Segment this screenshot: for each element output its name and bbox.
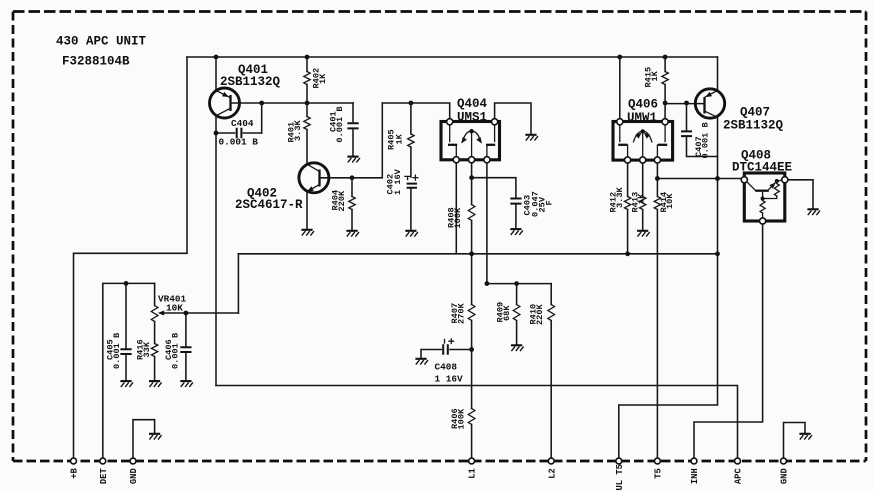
wire pin3 node wire <box>487 283 551 285</box>
resistor R405 <box>408 103 414 177</box>
ground GND left pin ground <box>149 434 162 440</box>
capacitor C404 <box>216 103 262 138</box>
capacitor C407 <box>681 103 718 157</box>
wire Q406 pin5 riser to +B rail <box>619 57 621 119</box>
svg-text:F3288104B: F3288104B <box>62 55 130 69</box>
svg-text:APC: APC <box>734 468 744 485</box>
connector pin +B <box>71 458 77 464</box>
wire GND right pin to ground <box>784 423 806 458</box>
svg-text:0.001 B: 0.001 B <box>700 122 710 158</box>
connector pin T5 <box>654 458 660 464</box>
transistor Q401 2SB1132Q <box>210 57 240 118</box>
svg-text:2SB1132Q: 2SB1132Q <box>220 75 281 89</box>
capacitor C401 <box>347 103 358 155</box>
junction base wire / R401 R402 <box>305 101 310 106</box>
junction DET wire / C405 <box>124 281 129 286</box>
resistor R407 <box>468 254 475 350</box>
junction bus / R412 <box>625 251 630 256</box>
transistor Q402 2SC4617-R <box>299 163 329 194</box>
svg-text:0.001 B: 0.001 B <box>335 106 345 142</box>
svg-text:100K: 100K <box>453 207 463 228</box>
svg-text:100K: 100K <box>456 408 466 429</box>
svg-text:C404: C404 <box>231 118 254 129</box>
capacitor C405 <box>120 283 131 379</box>
wire Q401 base wire <box>232 102 353 104</box>
svg-text:430 APC UNIT: 430 APC UNIT <box>56 35 147 49</box>
capacitor C408 (electrolytic) <box>421 339 472 358</box>
ground C408 ground <box>415 359 428 365</box>
resistor R401 <box>304 103 310 164</box>
svg-text:+B: +B <box>70 468 80 479</box>
resistor R414 <box>654 163 660 458</box>
svg-text:3.3K: 3.3K <box>293 120 303 141</box>
wire APC row wire <box>216 386 738 458</box>
wire bus end to UL T5 <box>619 254 718 458</box>
junction Q407 collector / Q408 input <box>715 176 720 181</box>
junction top rail / R415 <box>663 55 668 60</box>
svg-text:270K: 270K <box>456 303 466 324</box>
svg-text:68K: 68K <box>502 305 512 321</box>
svg-text:L2: L2 <box>547 468 557 479</box>
wire Q402 base wire <box>321 103 382 178</box>
svg-text:33K: 33K <box>142 341 152 357</box>
ground C406 ground <box>180 381 193 387</box>
junction bus / Q407 collector line <box>715 251 720 256</box>
svg-text:Q406: Q406 <box>628 98 658 112</box>
wire Q408 emitter to INH <box>694 224 763 458</box>
dual transistor Q406 UMW1 <box>613 119 673 163</box>
ground R409 ground <box>511 345 524 351</box>
svg-text:L1: L1 <box>468 468 478 479</box>
svg-text:DTC144EE: DTC144EE <box>732 161 792 175</box>
svg-text:GND: GND <box>129 468 139 484</box>
wire Q401 collector down to APC row <box>215 116 217 386</box>
resistor R402 <box>304 57 310 103</box>
svg-text:220K: 220K <box>535 304 545 325</box>
wire Q408 input wire <box>657 178 741 180</box>
resistor R412 <box>624 163 630 254</box>
junction R415 / Q406 pin6 / Q407 base <box>663 101 668 106</box>
transistor Q407 2SB1132Q <box>665 57 725 118</box>
ground C401 ground <box>347 157 360 163</box>
svg-text:10K: 10K <box>166 303 183 314</box>
wire node wire to Q404 pin4 <box>382 103 449 119</box>
wire Q404 pin2 lead <box>471 163 473 178</box>
junction top rail / Q406 pin5 <box>617 55 622 60</box>
wire wiper bus riser <box>237 254 239 313</box>
resistor R409 <box>513 284 520 344</box>
resistor R415 <box>662 57 668 103</box>
connector pin APC <box>735 458 741 464</box>
junction base wire / C404 riser <box>259 101 264 106</box>
wire +B top rail <box>187 56 718 58</box>
capacitor C406 <box>180 313 191 380</box>
junction Q404 pin2 / C403 tap <box>469 175 474 180</box>
wire Q408 collector wire to ground <box>788 180 813 208</box>
ground R416 ground <box>149 381 162 387</box>
svg-text:1K: 1K <box>650 70 660 81</box>
connector pin L2 <box>548 458 554 464</box>
junction R407 / C408 / R406 node <box>469 347 474 352</box>
junction pin3 riser corner <box>485 281 490 286</box>
svg-text:1K: 1K <box>394 133 404 144</box>
wire Q404 pin1 riser to bus <box>455 163 457 254</box>
junction top rail / Q401 emitter <box>214 55 219 60</box>
connector pin UL T5 <box>616 458 622 464</box>
connector pin INH <box>691 458 697 464</box>
svg-text:220K: 220K <box>337 190 347 211</box>
ground R404 ground <box>346 231 359 237</box>
junction Q401 collector / C404 tap <box>214 131 219 136</box>
svg-text:1 16V: 1 16V <box>393 168 403 195</box>
svg-text:T5: T5 <box>654 468 664 479</box>
border frame (dashed) <box>13 10 866 13</box>
svg-text:0.001 B: 0.001 B <box>171 333 181 369</box>
resistor R408 <box>468 178 475 254</box>
wire Q407 collector down <box>717 117 719 254</box>
wire Q404 pin6 wire to ground <box>495 103 531 134</box>
connector pin L1 <box>469 458 475 464</box>
junction R414 / Q408 input wire <box>655 176 660 181</box>
junction wiper wire / C406 <box>184 311 189 316</box>
junction bus / R407 R408 <box>469 251 474 256</box>
ground Q408 collector ground <box>807 209 820 215</box>
resistor R410 <box>548 284 555 458</box>
svg-text:Q404: Q404 <box>457 97 488 111</box>
svg-text:2SC4617-R: 2SC4617-R <box>235 198 303 212</box>
connector pin DET <box>100 458 106 464</box>
ground C402 ground <box>405 231 418 237</box>
wire wiper bus <box>238 253 717 255</box>
ground C403 ground <box>510 229 523 235</box>
wire GND left pin to ground <box>133 420 155 458</box>
ground GND right pin ground <box>799 434 812 440</box>
svg-text:1 16V: 1 16V <box>435 374 464 385</box>
ground R413 ground <box>637 231 650 237</box>
variable resistor VR401 <box>151 283 238 343</box>
svg-text:UMW1: UMW1 <box>627 111 657 125</box>
junction Q402 base / R404 <box>350 175 355 180</box>
svg-text:10K: 10K <box>665 193 675 209</box>
wire Q406 pin6 riser <box>664 103 666 119</box>
svg-text:1K: 1K <box>318 73 328 84</box>
connector pin GND <box>781 458 787 464</box>
svg-text:GND: GND <box>780 468 790 484</box>
junction Q407 base / C407 <box>684 101 689 106</box>
svg-text:F: F <box>545 200 555 205</box>
svg-text:C408: C408 <box>435 362 458 373</box>
svg-text:DET: DET <box>99 468 109 485</box>
resistor R416 <box>151 344 157 380</box>
ground Q402 emitter ground <box>301 230 314 236</box>
svg-text:UL T5: UL T5 <box>615 464 625 490</box>
dual transistor Q404 UMS1 <box>441 119 500 163</box>
junction wire / R405 <box>409 101 414 106</box>
svg-text:Q407: Q407 <box>740 106 770 120</box>
wire Q404 pin3 riser <box>486 163 488 284</box>
ground C405 ground <box>120 381 133 387</box>
digital transistor Q408 DTC144EE <box>741 173 788 224</box>
svg-text:2SB1132Q: 2SB1132Q <box>723 119 784 133</box>
junction top rail / R402 <box>305 55 310 60</box>
svg-text:0.001 B: 0.001 B <box>219 137 259 148</box>
svg-text:0.001 B: 0.001 B <box>112 333 122 369</box>
capacitor C403 <box>472 178 522 228</box>
resistor R413 <box>640 163 646 229</box>
wire +B left riser <box>74 57 188 458</box>
ground Q404 pin6 ground <box>525 135 538 141</box>
svg-text:INH: INH <box>690 468 700 484</box>
svg-text:UMS1: UMS1 <box>457 111 487 125</box>
resistor R404 <box>349 178 355 230</box>
junction pin3 node / R409 <box>514 281 519 286</box>
svg-text:1K: 1K <box>637 193 647 204</box>
capacitor C402 (electrolytic) <box>405 175 418 229</box>
svg-text:3.3K: 3.3K <box>615 187 625 208</box>
connector pin GND <box>130 458 136 464</box>
wire Q402 emitter lead <box>306 192 308 229</box>
resistor R406 <box>468 350 475 458</box>
wire DET riser <box>103 283 155 457</box>
